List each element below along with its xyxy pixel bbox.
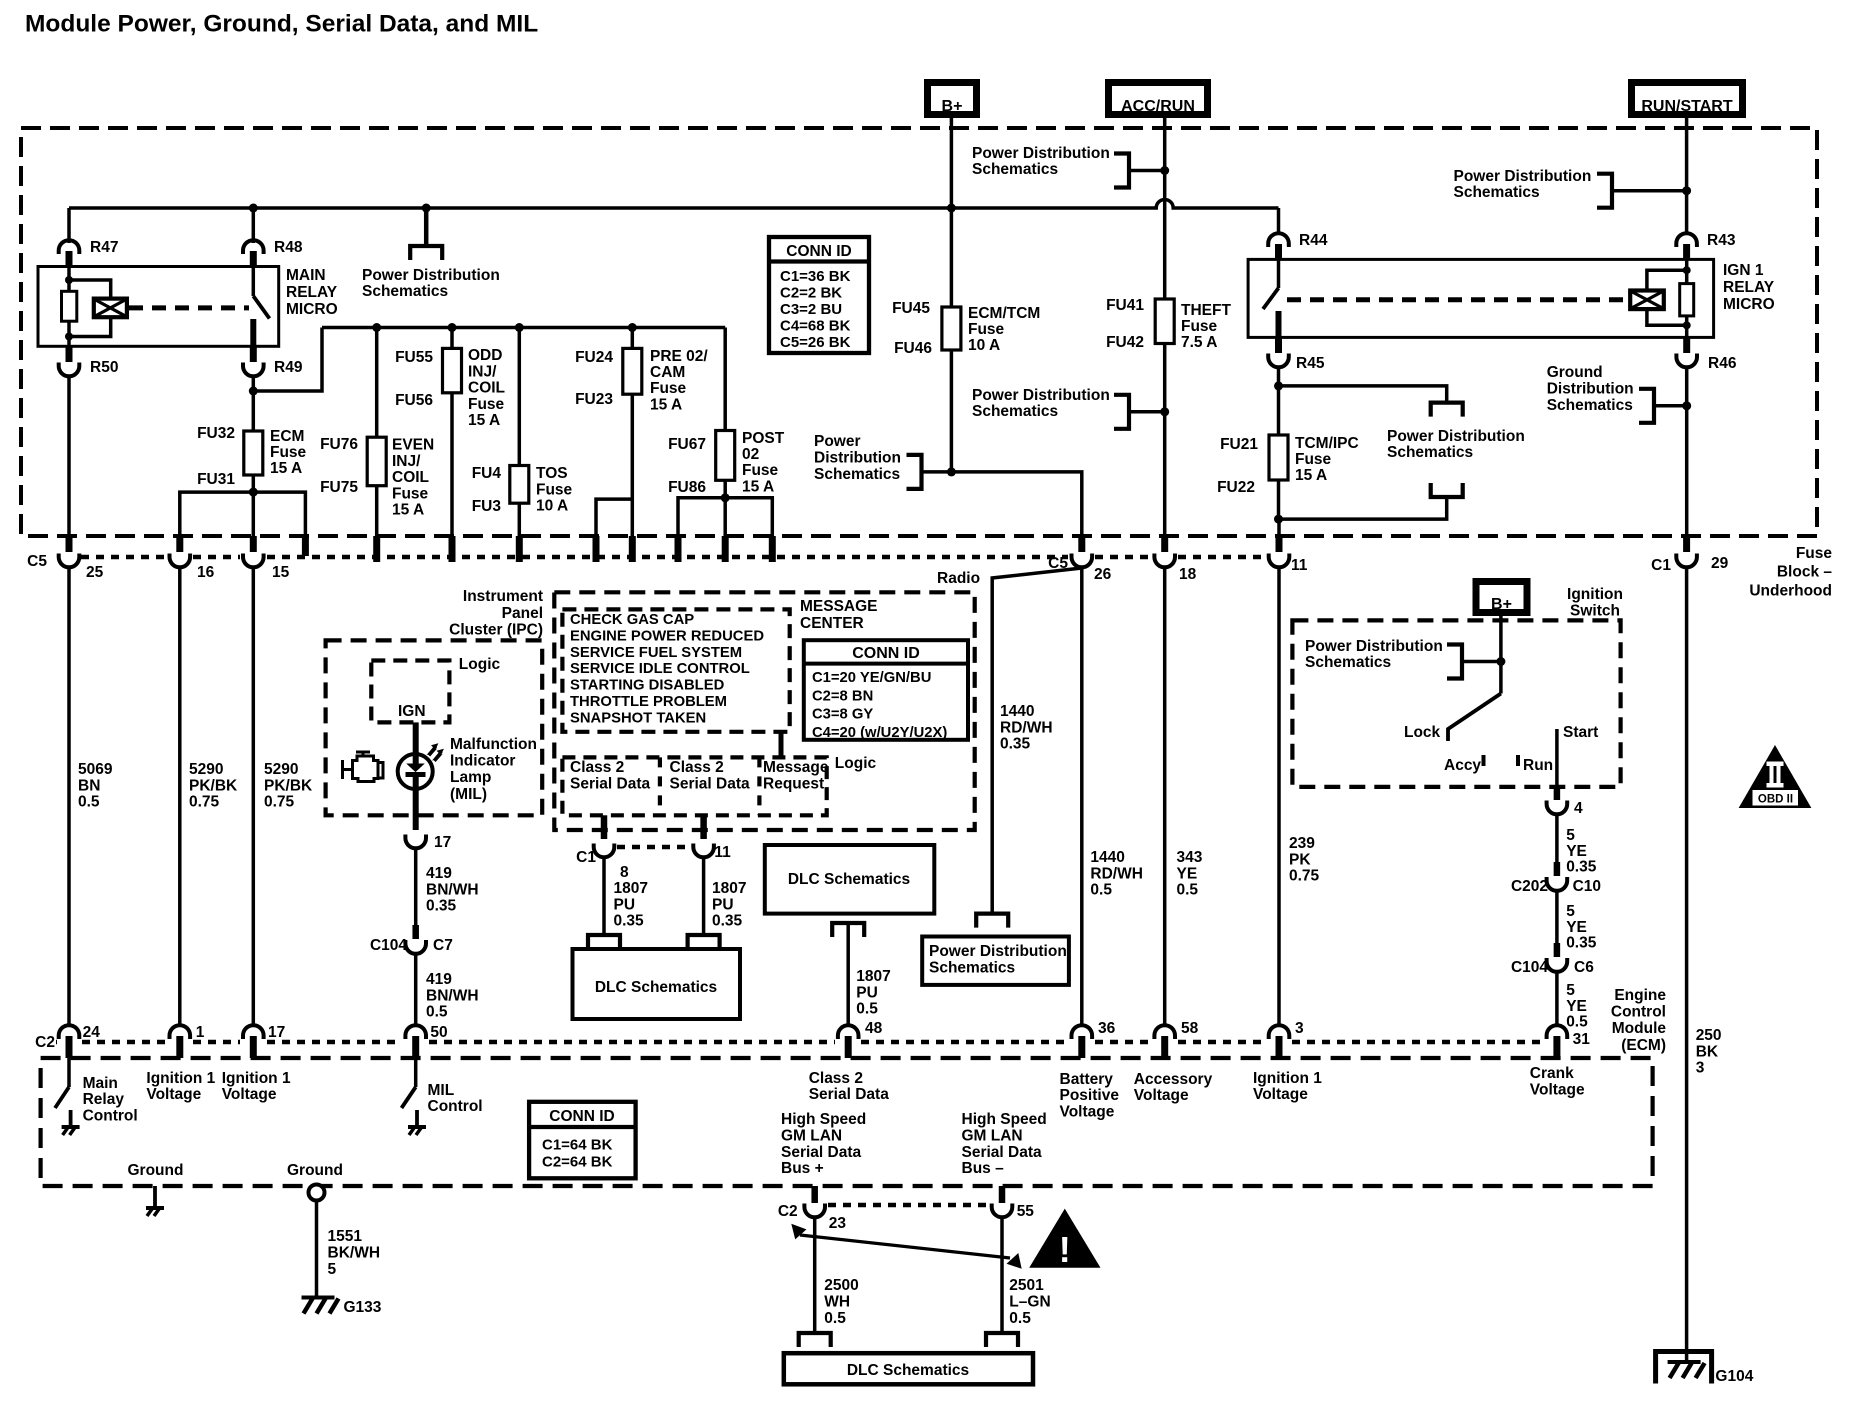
svg-text:MICRO: MICRO xyxy=(1723,296,1775,313)
svg-text:5069: 5069 xyxy=(78,761,113,778)
reference bracket ground distribution xyxy=(1639,389,1654,423)
svg-text:Distribution: Distribution xyxy=(814,449,901,466)
instrument panel cluster dashed box xyxy=(326,640,543,815)
svg-text:ENGINE POWER REDUCED: ENGINE POWER REDUCED xyxy=(570,628,764,644)
svg-text:4: 4 xyxy=(1574,800,1583,817)
svg-text:FU86: FU86 xyxy=(668,479,706,496)
svg-text:11: 11 xyxy=(1291,557,1308,574)
svg-text:R43: R43 xyxy=(1707,232,1736,249)
off-page staple to DLC 2 xyxy=(688,935,720,949)
pin 16 xyxy=(176,536,183,552)
wire 2500 WH 0.5 xyxy=(813,1217,817,1333)
svg-text:10 A: 10 A xyxy=(536,498,568,515)
connector R48 xyxy=(243,240,264,254)
wire ACC/RUN terminal down xyxy=(1163,118,1167,299)
connector R50 xyxy=(59,363,80,377)
svg-text:WH: WH xyxy=(824,1294,850,1311)
svg-text:1551: 1551 xyxy=(328,1228,363,1245)
ign 1 relay micro box xyxy=(1248,259,1714,337)
svg-text:INJ/: INJ/ xyxy=(468,363,497,380)
svg-text:Voltage: Voltage xyxy=(222,1086,277,1103)
relay switch xyxy=(252,267,256,297)
ground G104 xyxy=(1656,1352,1712,1384)
ecm pin 58 xyxy=(1154,1025,1175,1039)
wire logic link xyxy=(779,732,784,757)
svg-text:High Speed: High Speed xyxy=(962,1111,1047,1128)
svg-text:Ground: Ground xyxy=(1547,364,1603,381)
wire 1807 PU 0.5 to ECM pin 48 xyxy=(846,923,850,1024)
ecm pin 3 xyxy=(1269,1025,1290,1039)
svg-text:R47: R47 xyxy=(90,239,118,256)
svg-text:Relay: Relay xyxy=(83,1091,125,1108)
wire R49 down to fuse FU32 xyxy=(252,376,256,431)
svg-text:0.75: 0.75 xyxy=(1289,868,1320,885)
fuse FU41/FU42 THEFT xyxy=(1155,299,1174,344)
svg-text:5: 5 xyxy=(1566,827,1575,844)
svg-text:Ignition 1: Ignition 1 xyxy=(1253,1070,1322,1087)
svg-text:Class 2: Class 2 xyxy=(570,759,624,776)
svg-text:BN/WH: BN/WH xyxy=(426,987,479,1004)
svg-text:Fuse: Fuse xyxy=(1796,545,1833,562)
reference bracket power distribution xyxy=(907,455,922,489)
ecm bottom pin C2 23 xyxy=(811,1186,818,1203)
junction dot ground distribution tap xyxy=(1682,401,1691,410)
svg-text:1807: 1807 xyxy=(856,968,890,985)
svg-text:YE: YE xyxy=(1566,998,1587,1015)
ignition start wire xyxy=(1555,729,1559,787)
connector R47 xyxy=(59,240,80,254)
wire 1551 BK/WH to G133 xyxy=(315,1200,319,1297)
svg-text:Voltage: Voltage xyxy=(1134,1087,1189,1104)
svg-text:FU22: FU22 xyxy=(1217,479,1255,496)
connector row C5 dotted line xyxy=(81,555,166,560)
svg-text:R45: R45 xyxy=(1296,355,1325,372)
svg-text:PU: PU xyxy=(614,896,636,913)
svg-text:0.35: 0.35 xyxy=(1566,859,1597,876)
svg-text:G133: G133 xyxy=(344,1299,382,1316)
svg-text:!: ! xyxy=(1059,1229,1071,1270)
fuse FU32/FU31 ECM xyxy=(244,431,263,475)
pin stub R43 xyxy=(1683,244,1690,259)
svg-text:0.35: 0.35 xyxy=(614,913,645,930)
svg-text:Bus –: Bus – xyxy=(962,1160,1005,1177)
svg-text:Power Distribution: Power Distribution xyxy=(972,145,1110,162)
svg-text:MIL: MIL xyxy=(428,1082,455,1099)
svg-text:FU42: FU42 xyxy=(1106,334,1144,351)
wire 1440 RD/WH 0.5 to ECM pin 36 xyxy=(1080,567,1084,1027)
svg-text:Class 2: Class 2 xyxy=(670,759,724,776)
wire bus to R44 xyxy=(1277,208,1281,232)
fuse output stubs xyxy=(373,536,380,562)
svg-text:SERVICE IDLE CONTROL: SERVICE IDLE CONTROL xyxy=(570,661,750,677)
svg-text:2500: 2500 xyxy=(824,1277,858,1294)
svg-text:(MIL): (MIL) xyxy=(450,786,487,803)
svg-text:Serial Data: Serial Data xyxy=(670,776,751,793)
ecm connector row dotted line xyxy=(56,1040,57,1045)
svg-text:Schematics: Schematics xyxy=(1305,654,1391,671)
ignition switch blade xyxy=(1448,694,1501,742)
svg-text:ECM: ECM xyxy=(270,428,304,445)
svg-text:Voltage: Voltage xyxy=(1253,1086,1308,1103)
svg-text:7.5 A: 7.5 A xyxy=(1181,334,1217,351)
connector C202 / C10 xyxy=(1554,862,1561,876)
ecm bottom pin 55 xyxy=(999,1186,1006,1203)
ecm pin 50 xyxy=(405,1025,426,1039)
svg-text:11: 11 xyxy=(714,844,731,861)
svg-text:SNAPSHOT TAKEN: SNAPSHOT TAKEN xyxy=(570,710,706,726)
pin stub R44 xyxy=(1275,244,1282,259)
twisted pair arrow xyxy=(800,1235,1010,1258)
svg-text:10 A: 10 A xyxy=(968,337,1000,354)
svg-text:17: 17 xyxy=(434,834,451,851)
off-page staple power distribution xyxy=(410,246,442,260)
svg-text:C202: C202 xyxy=(1511,878,1548,895)
pin 26 connector C5 xyxy=(1078,536,1085,552)
svg-text:POST: POST xyxy=(742,430,785,447)
junction dot run/start tap xyxy=(1682,186,1691,195)
svg-text:Underhood: Underhood xyxy=(1749,582,1832,599)
svg-text:YE: YE xyxy=(1566,919,1587,936)
main relay micro box xyxy=(38,267,279,347)
svg-text:RELAY: RELAY xyxy=(286,284,338,301)
junction dot coil top xyxy=(65,276,73,284)
svg-text:Power Distribution: Power Distribution xyxy=(929,943,1067,960)
svg-text:55: 55 xyxy=(1017,1203,1035,1220)
pin stub R46 xyxy=(1683,337,1690,353)
pin 15 xyxy=(250,536,257,552)
svg-text:Radio: Radio xyxy=(937,570,980,587)
svg-text:18: 18 xyxy=(1179,566,1197,583)
svg-text:3: 3 xyxy=(1295,1020,1304,1037)
svg-text:C4=68 BK: C4=68 BK xyxy=(780,318,851,335)
svg-text:Fuse: Fuse xyxy=(270,444,307,461)
svg-text:RUN/START: RUN/START xyxy=(1641,98,1732,115)
svg-text:FU45: FU45 xyxy=(892,300,930,317)
terminal RUN/START xyxy=(1632,83,1743,115)
injector fuse sub-bus xyxy=(322,326,725,330)
svg-text:Module Power, Ground, Serial D: Module Power, Ground, Serial Data, and M… xyxy=(25,11,538,38)
reference bracket power distribution ACC lower xyxy=(1114,395,1129,429)
svg-text:0.75: 0.75 xyxy=(264,794,295,811)
svg-text:FU31: FU31 xyxy=(197,471,235,488)
off-page staple pair power distribution xyxy=(1431,403,1463,417)
pin stub R48 xyxy=(250,251,257,267)
svg-text:PK: PK xyxy=(1289,851,1311,868)
svg-text:Positive: Positive xyxy=(1060,1087,1120,1104)
junction dot ECM fuse splitter xyxy=(249,488,258,497)
svg-text:C3=2 BU: C3=2 BU xyxy=(780,301,842,318)
svg-text:Distribution: Distribution xyxy=(1547,380,1634,397)
svg-text:Control: Control xyxy=(428,1098,483,1115)
wire IGN to MIL lamp xyxy=(413,722,419,754)
svg-text:CONN ID: CONN ID xyxy=(852,645,920,662)
wire PRE O2 splitter xyxy=(596,499,632,538)
svg-text:Class 2: Class 2 xyxy=(809,1070,863,1087)
svg-text:250: 250 xyxy=(1696,1027,1722,1044)
svg-text:C2=64 BK: C2=64 BK xyxy=(542,1153,613,1170)
radio wire xyxy=(992,568,1082,914)
wire off-page to pin 11 xyxy=(1279,497,1447,538)
connector R46 xyxy=(1676,354,1697,368)
svg-text:0.35: 0.35 xyxy=(1566,935,1597,952)
svg-text:TOS: TOS xyxy=(536,465,568,482)
svg-text:Accy: Accy xyxy=(1444,757,1481,774)
main relay control switch xyxy=(67,1058,71,1087)
svg-text:FU55: FU55 xyxy=(395,349,433,366)
pin 17 ipc xyxy=(405,835,426,849)
wire 2501 L-GN 0.5 xyxy=(1000,1217,1004,1333)
pin stub R50 xyxy=(66,346,73,362)
wire 5290 PK/BK to ECM pin 1 xyxy=(178,567,182,1027)
engine icon xyxy=(353,756,379,782)
class 2 wire 2 stub xyxy=(700,815,707,839)
wire 5069 BN to ECM pin 24 xyxy=(67,567,71,1027)
connector R43 xyxy=(1676,233,1697,247)
svg-text:0.5: 0.5 xyxy=(824,1310,846,1327)
wire 5290 PK/BK to ECM pin 17 xyxy=(252,567,256,1027)
svg-text:0.5: 0.5 xyxy=(1566,1014,1588,1031)
reference bracket power distribution ACC xyxy=(1114,154,1129,188)
wire R45 to off-page reference xyxy=(1277,367,1281,386)
svg-text:FU41: FU41 xyxy=(1106,297,1144,314)
svg-text:B+: B+ xyxy=(942,98,963,115)
wire MIL lamp to pin 17 xyxy=(413,789,419,830)
svg-text:FU32: FU32 xyxy=(197,425,235,442)
pin 11 message xyxy=(693,844,714,858)
svg-text:58: 58 xyxy=(1181,1020,1199,1037)
svg-text:Switch: Switch xyxy=(1570,603,1620,620)
svg-text:FU4: FU4 xyxy=(472,465,502,482)
svg-text:Block –: Block – xyxy=(1777,564,1833,581)
svg-text:THEFT: THEFT xyxy=(1181,302,1231,319)
svg-text:IGN: IGN xyxy=(398,703,426,720)
wire 1807 PU 0.35 second xyxy=(702,857,706,935)
fuse FU76/FU75 EVEN INJ/COIL xyxy=(375,328,379,438)
svg-text:Engine: Engine xyxy=(1614,987,1666,1004)
svg-text:ODD: ODD xyxy=(468,347,502,364)
svg-text:Schematics: Schematics xyxy=(1547,397,1633,414)
svg-text:23: 23 xyxy=(829,1215,847,1232)
svg-text:RELAY: RELAY xyxy=(1723,279,1775,296)
svg-text:CONN ID: CONN ID xyxy=(786,243,851,260)
svg-text:Power Distribution: Power Distribution xyxy=(1387,428,1525,445)
svg-text:C5: C5 xyxy=(27,553,47,570)
svg-text:DLC Schematics: DLC Schematics xyxy=(788,871,910,888)
fuse FU67/FU86 POST O2 xyxy=(723,328,727,431)
svg-text:Schematics: Schematics xyxy=(362,283,448,300)
svg-text:239: 239 xyxy=(1289,835,1315,852)
svg-text:15 A: 15 A xyxy=(270,460,302,477)
svg-text:PK/BK: PK/BK xyxy=(264,777,313,794)
off-page staple DLC bottom 2 xyxy=(986,1333,1018,1347)
off-page staple DLC bottom 1 xyxy=(799,1333,831,1347)
svg-text:1440: 1440 xyxy=(1090,849,1124,866)
svg-text:0.35: 0.35 xyxy=(1000,736,1031,753)
wire R49 to injector fuse bus xyxy=(253,328,322,392)
pin 11 xyxy=(1276,536,1283,552)
svg-text:THROTTLE PROBLEM: THROTTLE PROBLEM xyxy=(570,694,727,710)
svg-text:Battery: Battery xyxy=(1060,1071,1114,1088)
wire THEFT fuse to pin 18 xyxy=(1163,344,1167,539)
conn id table fuse block xyxy=(769,237,869,353)
svg-text:Fuse: Fuse xyxy=(536,481,573,498)
conn id table message center xyxy=(804,640,968,740)
svg-text:26: 26 xyxy=(1094,566,1112,583)
svg-text:FU23: FU23 xyxy=(575,391,613,408)
svg-text:C104: C104 xyxy=(370,937,407,954)
fuse FU4/FU3 TOS xyxy=(518,328,522,466)
svg-text:FU46: FU46 xyxy=(894,340,932,357)
svg-text:OBD II: OBD II xyxy=(1758,794,1793,806)
svg-text:C1: C1 xyxy=(576,849,596,866)
ign relay solenoid x-box xyxy=(1630,291,1664,310)
engine control module dashed box xyxy=(41,1058,1653,1186)
off-page staple radio to power distribution xyxy=(976,914,1008,928)
svg-text:Fuse: Fuse xyxy=(392,485,429,502)
terminal ACC/RUN xyxy=(1109,83,1208,115)
connector C1 pin 8 xyxy=(594,844,615,858)
svg-text:R44: R44 xyxy=(1299,232,1328,249)
connector R44 xyxy=(1268,233,1289,247)
svg-text:15 A: 15 A xyxy=(742,478,774,495)
wire POST O2 splitter xyxy=(678,498,772,538)
wire 1807 PU 0.35 first xyxy=(602,857,606,935)
ecm pin 17 xyxy=(243,1025,264,1039)
svg-text:419: 419 xyxy=(426,865,452,882)
svg-text:C5=26 BK: C5=26 BK xyxy=(780,334,851,351)
fuse FU24/FU23 PRE O2/CAM xyxy=(631,328,635,349)
pin stub unnumbered xyxy=(302,536,309,556)
svg-text:Message: Message xyxy=(763,759,829,776)
mechanical link dashed ign relay xyxy=(1287,297,1628,302)
wire 419 BN/WH 0.35 xyxy=(414,848,418,925)
svg-text:Fuse: Fuse xyxy=(968,321,1005,338)
svg-text:02: 02 xyxy=(742,446,759,463)
svg-text:Power Distribution: Power Distribution xyxy=(1305,638,1443,655)
svg-text:Schematics: Schematics xyxy=(1387,444,1473,461)
wire 343 YE 0.5 to ECM pin 58 xyxy=(1163,567,1167,1027)
junction dot coil bottom xyxy=(65,333,73,341)
svg-text:C7: C7 xyxy=(433,937,453,954)
ignition switch dashed box xyxy=(1292,620,1620,787)
svg-text:15 A: 15 A xyxy=(468,412,500,429)
svg-text:FU75: FU75 xyxy=(320,479,358,496)
svg-text:3: 3 xyxy=(1696,1060,1705,1077)
svg-text:Voltage: Voltage xyxy=(146,1086,201,1103)
svg-text:Schematics: Schematics xyxy=(929,960,1015,977)
svg-text:36: 36 xyxy=(1098,1020,1116,1037)
svg-text:C1=64 BK: C1=64 BK xyxy=(542,1137,613,1154)
wire R45 down to TCM/IPC fuse xyxy=(1277,386,1281,435)
svg-text:0.5: 0.5 xyxy=(1090,882,1112,899)
svg-text:Power: Power xyxy=(814,433,861,450)
terminal B+ xyxy=(928,83,977,115)
svg-text:Serial Data: Serial Data xyxy=(570,776,651,793)
svg-text:Module: Module xyxy=(1612,1020,1667,1037)
wire R46 to C1 pin 29 xyxy=(1685,367,1689,538)
svg-text:RD/WH: RD/WH xyxy=(1090,865,1143,882)
svg-text:5: 5 xyxy=(1566,982,1575,999)
svg-text:BN: BN xyxy=(78,777,100,794)
svg-text:MICRO: MICRO xyxy=(286,301,338,318)
wire B+ into ignition switch xyxy=(1499,613,1503,694)
svg-text:R48: R48 xyxy=(274,239,303,256)
svg-text:Fuse: Fuse xyxy=(650,380,687,397)
svg-text:DLC Schematics: DLC Schematics xyxy=(595,979,717,996)
svg-text:R50: R50 xyxy=(90,359,118,376)
DLC schematics box right xyxy=(765,845,935,914)
DLC schematics box bottom xyxy=(784,1353,1033,1384)
svg-text:29: 29 xyxy=(1711,555,1729,572)
svg-text:Schematics: Schematics xyxy=(1454,184,1540,201)
ecm pin 31 xyxy=(1547,1025,1568,1039)
svg-text:Indicator: Indicator xyxy=(450,753,515,770)
off-page staple DLC out xyxy=(832,923,864,937)
svg-text:C3=8 GY: C3=8 GY xyxy=(812,707,873,723)
svg-text:24: 24 xyxy=(83,1024,101,1041)
fuse block - underhood dashed box xyxy=(21,128,1817,536)
svg-text:FU21: FU21 xyxy=(1220,436,1258,453)
fuse FU55/FU56 ODD INJ/COIL xyxy=(450,328,454,349)
ground stub 1 xyxy=(153,1186,157,1207)
power distribution schematics box xyxy=(922,937,1069,985)
svg-text:0.75: 0.75 xyxy=(189,794,220,811)
connector C104 / C6 xyxy=(1554,943,1561,957)
svg-text:Run: Run xyxy=(1523,757,1553,774)
svg-text:Serial Data: Serial Data xyxy=(809,1086,890,1103)
OBD II triangle xyxy=(1740,746,1811,808)
class 2 serial data box 1 xyxy=(562,757,826,815)
mil control switch xyxy=(414,1058,418,1087)
message list dashed box xyxy=(562,609,789,731)
class 2 wire 1 stub xyxy=(601,815,608,839)
wire power distribution tap down xyxy=(424,208,429,246)
svg-text:High Speed: High Speed xyxy=(781,1111,866,1128)
svg-text:C104: C104 xyxy=(1511,959,1548,976)
wire R50 to pin 25 xyxy=(67,376,71,552)
svg-text:SERVICE FUEL SYSTEM: SERVICE FUEL SYSTEM xyxy=(570,645,742,661)
svg-text:BN/WH: BN/WH xyxy=(426,881,479,898)
pin stub R45 xyxy=(1275,337,1282,353)
svg-text:Schematics: Schematics xyxy=(972,403,1058,420)
svg-text:0.5: 0.5 xyxy=(78,794,100,811)
bus wire B+ distribution xyxy=(69,200,1279,209)
svg-text:C2=2 BK: C2=2 BK xyxy=(780,285,842,302)
svg-text:C10: C10 xyxy=(1573,878,1601,895)
dotted connector line xyxy=(617,845,691,850)
pin stub R47 xyxy=(66,251,73,267)
svg-text:5290: 5290 xyxy=(189,761,223,778)
ign relay coil xyxy=(1685,259,1689,270)
svg-text:STARTING DISABLED: STARTING DISABLED xyxy=(570,678,725,694)
wire RUN/START terminal down to R43 xyxy=(1685,118,1689,232)
svg-text:0.35: 0.35 xyxy=(712,913,743,930)
svg-text:B+: B+ xyxy=(1491,596,1512,613)
svg-text:CENTER: CENTER xyxy=(800,615,864,632)
svg-text:YE: YE xyxy=(1566,843,1587,860)
svg-text:R49: R49 xyxy=(274,359,303,376)
connector R45 xyxy=(1268,354,1289,368)
svg-text:Control: Control xyxy=(1611,1004,1666,1021)
svg-text:31: 31 xyxy=(1573,1031,1591,1048)
svg-text:Power Distribution: Power Distribution xyxy=(362,267,500,284)
pin 25 xyxy=(66,536,73,552)
reference bracket power distribution ignition xyxy=(1447,645,1462,679)
junction dot POST O2 splitter xyxy=(721,493,730,502)
message center dashed box xyxy=(554,592,974,830)
warning triangle xyxy=(1030,1210,1100,1268)
svg-text:PRE 02/: PRE 02/ xyxy=(650,348,708,365)
